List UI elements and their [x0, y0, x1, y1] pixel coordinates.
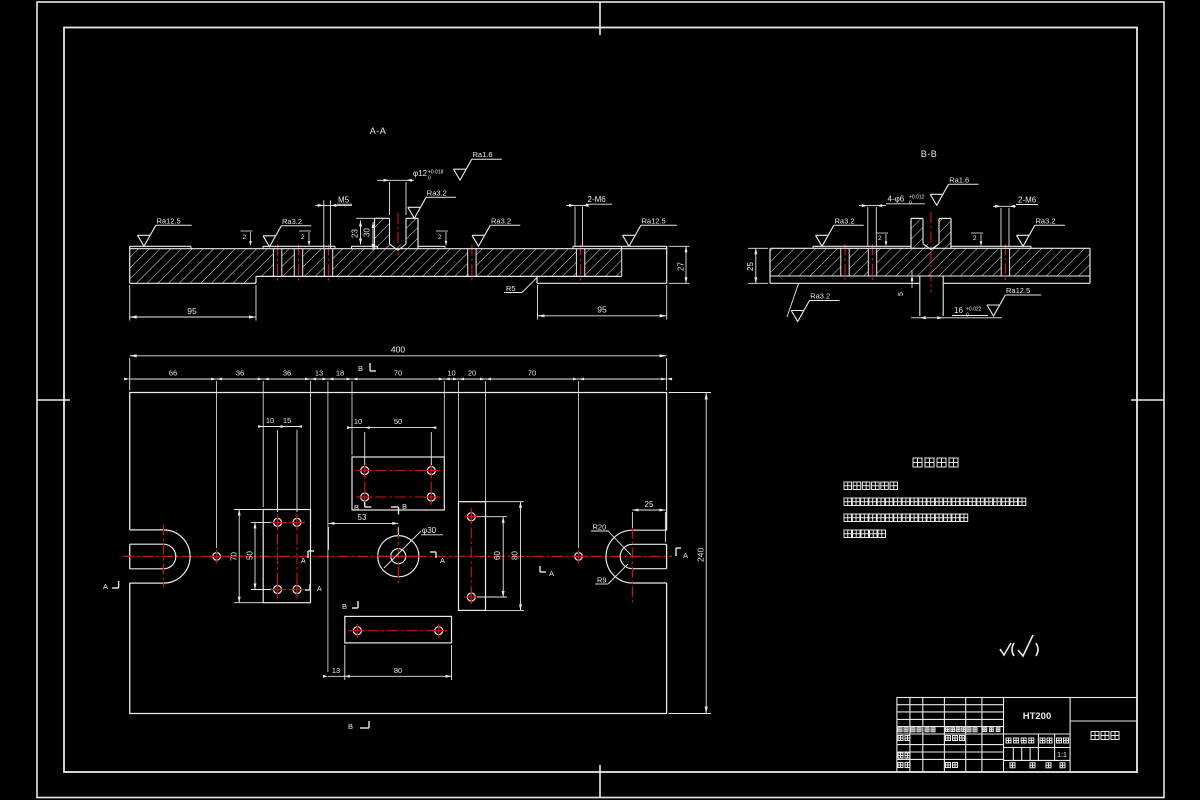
svg-text:B: B: [402, 502, 407, 511]
top-middle pad holes: [361, 467, 369, 475]
B-B dim 5 recess: [911, 270, 913, 288]
title block gong zhang di zhang: [1010, 763, 1015, 768]
svg-text:A: A: [549, 569, 554, 578]
left fork centerline: [163, 524, 165, 587]
svg-text:80: 80: [394, 666, 402, 675]
svg-text:36: 36: [283, 369, 291, 378]
surface roughness symbol Ra12.5: [623, 225, 641, 246]
svg-text:A: A: [301, 558, 306, 565]
svg-text:13: 13: [315, 369, 323, 378]
svg-text:R5: R5: [506, 284, 516, 293]
B-B boss outline: [910, 218, 912, 248]
centering tick right: [1131, 399, 1164, 401]
mid-left pad holes: [274, 518, 282, 526]
A-A hole cut at x=298.5: [294, 248, 302, 277]
tech req line 1: [844, 482, 852, 490]
A-A bar hatched left portion: [130, 249, 256, 284]
right-middle pad centerline: [470, 508, 472, 606]
svg-text:M5: M5: [338, 196, 350, 205]
roughness checkmark note: [1000, 635, 1038, 656]
svg-text:50: 50: [245, 551, 254, 560]
title block part name (jia ju ti): [1091, 732, 1099, 740]
center circle phi30: [378, 536, 419, 577]
svg-text:50: 50: [394, 417, 402, 426]
A-A bar hatched middle portion: [256, 249, 622, 277]
centering tick left: [37, 399, 70, 401]
A-A bar bottom outline left: [130, 282, 256, 284]
svg-text:70: 70: [394, 369, 402, 378]
tech req line 2: [844, 498, 852, 506]
svg-text:66: 66: [169, 369, 177, 378]
svg-text:Ra3.2: Ra3.2: [491, 216, 511, 225]
left fork U-slot inner: [130, 544, 176, 569]
svg-text:Ra3.2: Ra3.2: [282, 217, 302, 226]
surface roughness symbol Ra3.2: [791, 301, 809, 322]
svg-text:95: 95: [187, 306, 197, 316]
svg-text:B-B: B-B: [921, 149, 938, 159]
svg-text:23: 23: [351, 229, 360, 238]
mid-left pad centerlines: [277, 514, 279, 598]
svg-text:B: B: [354, 503, 359, 512]
A-A boss hatched: [375, 218, 419, 248]
B-B boss centerline: [930, 212, 932, 293]
top-middle dims 10 50: [351, 432, 353, 455]
right-middle pad rectangle: [459, 502, 486, 611]
mid-left pad rectangle: [263, 510, 310, 603]
svg-text:φ12: φ12: [413, 169, 428, 178]
A-A dim 23: [356, 217, 375, 219]
svg-text:B: B: [358, 364, 363, 373]
svg-text:30: 30: [363, 228, 372, 237]
svg-text:R9: R9: [597, 576, 607, 585]
svg-text:95: 95: [597, 305, 607, 315]
A-A bar step and bottom right: [536, 276, 538, 283]
technical requirements title (ji shu yao qiu): [913, 458, 922, 467]
svg-text:2: 2: [878, 235, 882, 242]
plan view plate outline: [130, 393, 667, 714]
right fork U-slot inner: [620, 544, 666, 568]
svg-text:B: B: [342, 602, 347, 611]
svg-text:10: 10: [354, 417, 362, 426]
B-B bottom stub: [919, 276, 921, 316]
svg-text:1:1: 1:1: [1057, 752, 1067, 759]
svg-text:Ra12.5: Ra12.5: [642, 216, 666, 225]
svg-text:0: 0: [428, 176, 431, 182]
surface roughness symbol Ra1.6: [454, 159, 472, 180]
svg-text:20: 20: [468, 369, 476, 378]
bottom-middle dims 13 80: [344, 645, 346, 680]
plan hole at 66: [213, 553, 221, 561]
svg-text:B: B: [348, 722, 353, 731]
top-middle pad centerlines: [356, 470, 440, 472]
svg-text:Ra1.6: Ra1.6: [949, 175, 969, 184]
A-A boss outline: [374, 218, 376, 248]
B-B hole cut at x=872.5: [868, 248, 876, 277]
plan dim extension lines: [216, 381, 218, 548]
right-middle dim 60: [477, 516, 507, 518]
svg-text:2: 2: [438, 234, 442, 241]
tech req line 4: [844, 530, 852, 538]
svg-text:36: 36: [236, 369, 244, 378]
svg-text:13: 13: [332, 666, 340, 675]
svg-text:400: 400: [391, 345, 405, 355]
svg-text:Ra1.6: Ra1.6: [473, 150, 493, 159]
svg-text:Ra3.2: Ra3.2: [835, 216, 855, 225]
right fork centerline: [631, 528, 633, 605]
svg-text:2: 2: [301, 234, 305, 241]
svg-text:5: 5: [898, 292, 905, 296]
svg-text:70: 70: [230, 552, 239, 561]
right fork dim 25: [631, 512, 633, 528]
svg-text:2-M6: 2-M6: [1018, 196, 1037, 205]
svg-text:4-φ6: 4-φ6: [888, 195, 905, 204]
svg-text:15: 15: [283, 416, 291, 425]
svg-text:27: 27: [677, 262, 686, 271]
centering tick top: [599, 2, 601, 35]
svg-text:Ra12.5: Ra12.5: [1006, 286, 1030, 295]
bottom-middle pad holes: [353, 627, 361, 635]
surface roughness symbol Ra12.5: [138, 225, 156, 246]
A-A dim phi12: [389, 182, 391, 215]
plan hole right: [575, 553, 583, 561]
svg-text:R20: R20: [593, 523, 607, 532]
right-middle dim 80: [460, 501, 524, 503]
svg-text:2-M6: 2-M6: [588, 195, 607, 204]
svg-text:Ra3.2: Ra3.2: [427, 188, 447, 197]
B-B bar hatched: [770, 248, 1090, 276]
bottom-middle pad rectangle: [345, 616, 452, 643]
svg-text:HT200: HT200: [1023, 711, 1052, 722]
surface roughness symbol Ra3.2: [408, 197, 426, 218]
A-A hole cut at x=328.5: [324, 248, 332, 277]
B-B hole cut at x=1005.4: [1001, 248, 1009, 277]
left fork U-slot outer: [130, 530, 190, 583]
A-A hole cut at x=277.6: [273, 248, 281, 277]
svg-text:A: A: [440, 556, 445, 565]
B-B dim 25 left: [748, 247, 768, 249]
dim 53: [397, 527, 399, 535]
A-A raised pads on top: [130, 245, 191, 247]
title block row labels: [898, 728, 902, 732]
plan dim 400: [130, 355, 667, 357]
A-A boss hole phi12: [390, 218, 407, 244]
surface roughness symbol Ra3.2: [816, 225, 834, 246]
svg-text:10: 10: [266, 416, 274, 425]
svg-text:A: A: [683, 551, 688, 560]
B-B hole cut at x=845: [841, 248, 849, 277]
svg-text:Ra3.2: Ra3.2: [1036, 216, 1056, 225]
B-B bar outline: [770, 247, 1090, 249]
B-B boss hatched: [911, 218, 951, 248]
B-B raised pads: [813, 245, 911, 247]
svg-text:25: 25: [645, 500, 654, 509]
A-A small dim 2 (pad height) x3: [250, 232, 252, 245]
phi30 centerlines: [397, 528, 399, 585]
svg-text:53: 53: [358, 513, 367, 522]
svg-text:18: 18: [336, 369, 344, 378]
svg-text:60: 60: [493, 551, 502, 560]
mid-left dim 70: [234, 509, 263, 511]
plan main horizontal centerline: [123, 555, 672, 557]
A-A hole cut at x=580.6: [576, 248, 584, 277]
right-middle pad holes: [467, 513, 475, 521]
surface roughness symbol Ra3.2: [1017, 225, 1035, 246]
svg-text:25: 25: [746, 262, 755, 271]
bottom-middle pad centerline: [348, 630, 447, 632]
A-A dim 95 left: [129, 285, 131, 321]
surface roughness symbol Ra3.2: [472, 225, 490, 246]
A-A dim 95 right: [537, 285, 539, 320]
svg-text:Ra12.5: Ra12.5: [157, 216, 181, 225]
svg-text:φ30: φ30: [422, 526, 437, 535]
svg-text:80: 80: [511, 551, 520, 560]
plan dim 240: [669, 392, 711, 394]
surface roughness symbol Ra1.6: [930, 184, 948, 205]
B-B dim 4-phi6: [867, 207, 869, 246]
top-middle pad rectangle: [352, 457, 444, 510]
svg-text:16: 16: [954, 306, 963, 315]
svg-text:240: 240: [696, 548, 706, 562]
B-B dim 2-M6: [1000, 208, 1002, 246]
svg-text:A-A: A-A: [370, 126, 387, 136]
A-A hole cut at x=471.9: [468, 248, 476, 277]
A-A dim M5: [323, 200, 325, 248]
phi30 label leader: [384, 531, 421, 568]
B-B small dim 2 x2: [885, 234, 887, 245]
svg-text:70: 70: [528, 369, 536, 378]
A-A dim 2-M6: [574, 207, 576, 247]
svg-text:A: A: [317, 586, 322, 593]
plan dim row: 66 36 36 13 18 70 10 20 70: [130, 378, 667, 380]
surface roughness symbol Ra12.5: [987, 295, 1005, 316]
A-A dim 27 right end: [669, 245, 690, 247]
title block table: [897, 698, 1137, 773]
surface roughness symbol Ra3.2: [263, 226, 281, 247]
B-B dim 16 stub: [911, 317, 1002, 319]
svg-text:A: A: [103, 582, 108, 591]
svg-text:10: 10: [447, 369, 455, 378]
svg-text:2: 2: [243, 234, 247, 241]
tech req line 3: [844, 514, 852, 522]
B-B leader to bottom-left roughness: [787, 284, 799, 317]
A-A bar bottom outline middle: [256, 275, 622, 277]
mid-left dims 10 15: [262, 430, 264, 507]
svg-text:2: 2: [973, 235, 977, 242]
centering tick bottom: [599, 765, 601, 798]
right fork U-slot outer: [606, 530, 667, 583]
A-A dim 30: [372, 222, 374, 250]
mid-left dim 50: [251, 521, 271, 523]
A-A bar top outline: [130, 248, 667, 250]
svg-text:Ra3.2: Ra3.2: [810, 292, 830, 301]
B-B boss hole: [923, 218, 939, 244]
